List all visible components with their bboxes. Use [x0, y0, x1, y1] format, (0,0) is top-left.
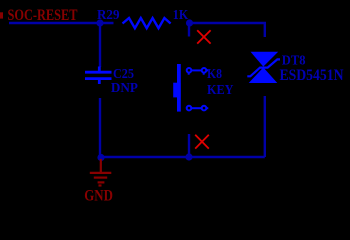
no-connect X top	[197, 30, 210, 43]
ground bar 2	[94, 177, 107, 179]
node junction top-mid	[186, 19, 193, 26]
svg-text:ESD5451N: ESD5451N	[280, 67, 344, 84]
wire stub switch to bottom rail	[188, 134, 190, 157]
ground bar 4	[99, 184, 102, 186]
svg-text:GND: GND	[84, 187, 113, 204]
resistor R29	[123, 18, 171, 28]
svg-text:KEY: KEY	[207, 83, 234, 98]
TVS diode DT8 middle Z bar	[247, 59, 280, 76]
TVS diode DT8 top triangle	[251, 52, 279, 67]
svg-text:C25: C25	[113, 67, 134, 82]
switch K8 bottom contacts	[187, 106, 209, 111]
wire stub from top-mid junction down	[188, 23, 190, 37]
node junction bottom-left	[97, 154, 104, 161]
port fragment left edge	[0, 12, 3, 18]
ground stem	[100, 159, 102, 172]
wire bottom rail	[101, 156, 265, 158]
TVS diode DT8 bottom triangle	[249, 67, 278, 83]
ground bar 1	[90, 172, 112, 174]
switch K8 top contacts	[187, 68, 209, 75]
svg-text:K8: K8	[207, 67, 222, 82]
capacitor C25	[85, 67, 112, 85]
switch K8 actuator bar	[177, 64, 181, 112]
no-connect X bottom	[195, 135, 209, 149]
svg-text:1K: 1K	[173, 8, 188, 23]
wire top rail right segment with corner down to diode	[190, 23, 265, 37]
wire top rail left segment	[9, 22, 114, 25]
ground bar 3	[98, 181, 105, 183]
switch K8 button	[173, 83, 180, 98]
node junction bottom-mid	[185, 153, 192, 160]
svg-text:R29: R29	[97, 8, 120, 23]
svg-text:DNP: DNP	[111, 81, 138, 96]
svg-text:SOC-RESET: SOC-RESET	[8, 7, 79, 24]
node junction top-left	[96, 19, 103, 26]
wire diode bottom lead	[264, 96, 266, 157]
wire C25 branch upper	[99, 23, 101, 67]
wire C25 branch lower	[99, 98, 101, 157]
